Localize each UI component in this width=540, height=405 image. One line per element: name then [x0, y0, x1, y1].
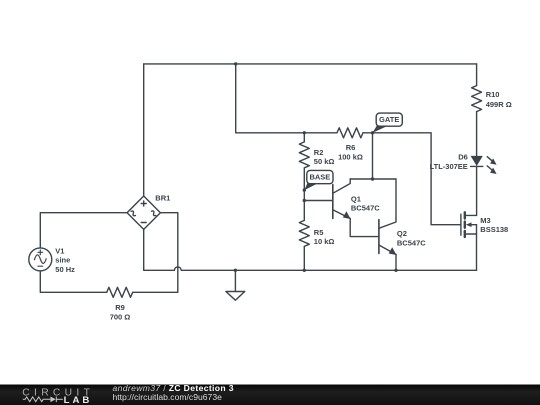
wire BR1 minus down to rail	[143, 229, 145, 270]
svg-text:GATE: GATE	[379, 115, 399, 124]
svg-text:50 kΩ: 50 kΩ	[314, 157, 335, 166]
wire V1 top to BR1 left	[40, 213, 127, 248]
ground	[226, 270, 245, 300]
svg-text:R6: R6	[346, 143, 356, 152]
wire R10 to LED anode	[476, 112, 478, 156]
node GATE attach	[371, 131, 374, 134]
wire Q2 emitter to rail	[395, 255, 397, 271]
wire top rail down to R10	[476, 64, 478, 86]
svg-text:BR1: BR1	[155, 194, 170, 203]
wire GATE net vertical down to collector node	[372, 133, 374, 179]
wire V1 bottom to R9	[40, 271, 106, 292]
svg-text:499R Ω: 499R Ω	[486, 100, 512, 109]
junction dots	[234, 62, 398, 272]
wire Q1 emitter to Q2 base	[350, 219, 379, 237]
wire R5 bottom to rail	[303, 246, 305, 270]
node flag BASE	[304, 170, 333, 190]
svg-text:R2: R2	[314, 148, 324, 157]
svg-text:50 Hz: 50 Hz	[55, 265, 75, 274]
svg-text:http://circuitlab.com/c9u673e: http://circuitlab.com/c9u673e	[113, 392, 223, 402]
node Q1 base tap	[303, 199, 306, 202]
wire branch down from top rail to R2/R6 row	[236, 64, 337, 133]
svg-text:V1: V1	[55, 247, 64, 256]
svg-text:BASE: BASE	[309, 173, 330, 182]
svg-text:D6: D6	[458, 153, 468, 162]
svg-text:sine: sine	[55, 256, 70, 265]
resistor R2 zigzag	[299, 142, 309, 168]
wire collector node horizontal	[350, 178, 396, 180]
voltage source V1	[29, 248, 52, 271]
resistor R9 zigzag	[107, 287, 133, 297]
logo mini schematic	[23, 397, 63, 403]
wire M3 source to rail	[476, 234, 478, 270]
resistor R6 zigzag	[337, 128, 363, 138]
svg-text:100 kΩ: 100 kΩ	[338, 152, 363, 161]
svg-text:700 Ω: 700 Ω	[110, 312, 131, 321]
svg-text:LTL-307EE: LTL-307EE	[430, 162, 468, 171]
resistor R5 zigzag	[299, 220, 309, 246]
wire BR1 right down to R9	[160, 213, 177, 293]
wire top rail	[144, 63, 477, 65]
transistor M3 MOSFET	[461, 212, 477, 237]
wire Q2 collector stub	[395, 179, 397, 219]
node top-rail/gate-branch	[234, 62, 237, 65]
svg-text:BSS138: BSS138	[480, 225, 508, 234]
svg-text:R10: R10	[486, 90, 500, 99]
node Q2 emitter	[394, 269, 397, 272]
wire BR1 plus output up	[143, 64, 145, 196]
diode LED D6	[471, 156, 497, 174]
node R2 top	[303, 131, 306, 134]
transistor Q2	[379, 219, 397, 256]
node collector junction	[371, 177, 374, 180]
wire R9 right	[133, 291, 178, 293]
svg-text:R5: R5	[314, 228, 324, 237]
svg-text:BC547C: BC547C	[397, 238, 426, 247]
wire Q1 base	[304, 200, 333, 202]
wire R2 bottom to R5 top	[303, 168, 305, 221]
svg-text:LAB: LAB	[64, 395, 93, 405]
bridge rectifier BR1	[127, 196, 160, 229]
wire LED cathode to M3 drain	[476, 166, 478, 215]
svg-text:M3: M3	[480, 216, 490, 225]
svg-text:R9: R9	[115, 303, 125, 312]
wire R2 top stub	[303, 133, 305, 142]
node flag GATE	[373, 113, 403, 133]
transistor Q1	[333, 179, 351, 219]
wire bottom rail with hop over R9 wire	[144, 267, 477, 270]
svg-text:10 kΩ: 10 kΩ	[314, 237, 335, 246]
node BASE attach	[303, 188, 306, 191]
node ground junction	[234, 269, 237, 272]
footer bar	[0, 383, 540, 405]
svg-text:BC547C: BC547C	[351, 204, 380, 213]
resistor R10 zigzag	[472, 86, 482, 112]
node R5 bottom	[303, 269, 306, 272]
svg-text:Q1: Q1	[351, 194, 361, 203]
wire R6 right to corner and down to M3 gate	[363, 133, 461, 225]
svg-text:Q2: Q2	[397, 229, 407, 238]
